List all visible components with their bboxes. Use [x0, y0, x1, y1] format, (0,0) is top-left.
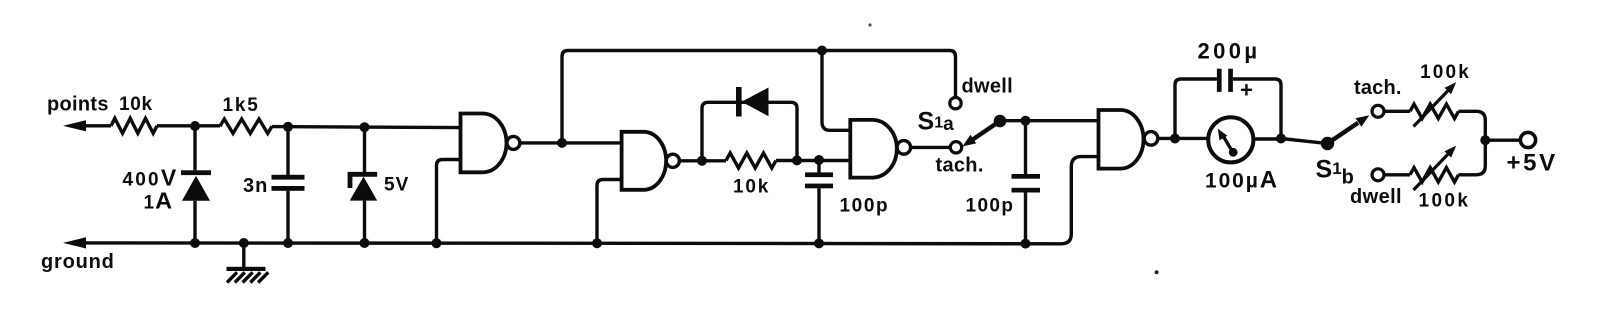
svg-text:+: + — [1240, 77, 1253, 102]
wire: 1k5 to NAND1 input — [272, 127, 461, 128]
label: ground — [41, 251, 115, 273]
switch S1a pivot — [994, 115, 1007, 128]
resistor 10k (feedback) — [726, 153, 850, 168]
junction: branches join — [1480, 135, 1490, 145]
op NAND gate N2 — [622, 132, 680, 190]
svg-text:100k: 100k — [1420, 62, 1471, 83]
label: +5V — [1507, 150, 1558, 177]
switch S1a lever — [963, 121, 1001, 146]
label: S1a — [918, 108, 955, 136]
wire: N2 lower input to ground rail — [597, 180, 622, 244]
capacitor 3n — [272, 127, 305, 243]
wire: N1 output to N2 input — [520, 141, 622, 144]
switch S1b dwell contact — [1372, 169, 1384, 181]
node C junction (zener top) — [360, 122, 370, 132]
label: 1k5 — [223, 95, 260, 116]
zener diode 5V — [350, 127, 378, 243]
label: 100p (node X) — [840, 196, 890, 217]
op NAND gate N4 — [1099, 110, 1158, 169]
label: 10k — [119, 94, 153, 115]
label: 1A — [144, 188, 173, 214]
label: 400V — [123, 165, 177, 191]
svg-text:dwell: dwell — [962, 76, 1014, 98]
svg-text:points: points — [47, 94, 109, 116]
junction: 3n ground — [283, 238, 293, 248]
ground rail with arrow — [63, 157, 1099, 249]
resistor 1k5 — [220, 119, 272, 133]
wire: N3 output to switch S1a — [911, 146, 951, 149]
diode D2 feedback loop — [702, 87, 797, 161]
label: dwell (S1a) — [962, 76, 1014, 98]
capacitor 100p (S1a node) — [1012, 121, 1041, 244]
label: 200µ — [1198, 39, 1261, 64]
junction: 100p #2 ground — [1021, 239, 1031, 249]
label: 3n — [243, 175, 268, 197]
junction: zener ground — [360, 238, 370, 248]
op NAND gate N1 — [461, 114, 520, 173]
label: 100k (dwell) — [1419, 191, 1471, 212]
svg-text:ground: ground — [41, 251, 115, 273]
junction: N2 input ground — [592, 238, 602, 248]
speck — [1155, 270, 1159, 274]
svg-text:tach.: tach. — [936, 155, 984, 177]
wire: S1a common to N4 input — [1000, 119, 1099, 122]
svg-text:dwell: dwell — [1350, 186, 1402, 208]
svg-text:10k: 10k — [119, 94, 153, 115]
variable resistor 100k (dwell) — [1384, 140, 1485, 190]
junction: N2 out / loop left — [697, 156, 707, 166]
switch S1a tach contact — [950, 142, 961, 153]
speck — [868, 23, 871, 26]
junction: N1 input ground — [432, 238, 442, 248]
junction: diode ground — [190, 238, 200, 248]
svg-text:100µA: 100µA — [1205, 167, 1277, 194]
wire: top feedback rail to dwell contact — [562, 51, 956, 143]
wire: N1 lower input to ground rail — [437, 160, 461, 244]
label: S1b — [1316, 156, 1354, 189]
capacitor 100p (node X) — [805, 160, 833, 243]
label: dwell (S1b) — [1350, 186, 1402, 208]
wire: meter right to S1b — [1253, 139, 1321, 143]
resistor 10k (points series) — [111, 118, 157, 133]
label: tach. (S1b) — [1354, 77, 1402, 99]
junction: 100p ground — [814, 238, 824, 248]
junction: meter left — [1170, 134, 1180, 144]
junction: meter right — [1276, 134, 1286, 144]
svg-text:5V: 5V — [384, 175, 409, 196]
op NAND gate N3 — [850, 120, 910, 178]
switch S1b tach contact — [1372, 105, 1384, 117]
label: + polarity — [1240, 77, 1253, 102]
svg-text:100p: 100p — [840, 196, 890, 217]
junction: ground symbol tap — [239, 238, 249, 248]
junction: N1 output feedback tap — [557, 138, 567, 148]
svg-text:10k: 10k — [733, 177, 770, 198]
label: 10k feedback — [733, 177, 770, 198]
label: 5V — [384, 175, 409, 196]
label: 100µA — [1205, 167, 1277, 194]
svg-text:3n: 3n — [243, 175, 268, 197]
svg-text:1k5: 1k5 — [223, 95, 260, 116]
switch S1b pivot — [1321, 137, 1334, 150]
junction: top rail tap — [817, 46, 827, 56]
svg-text:100k: 100k — [1419, 191, 1471, 212]
variable resistor 100k (tach) — [1384, 82, 1485, 140]
node B junction (3n) — [283, 122, 293, 132]
meter M1 100µA — [1208, 117, 1253, 162]
svg-text:200µ: 200µ — [1198, 39, 1261, 64]
svg-text:tach.: tach. — [1354, 77, 1402, 99]
wire: N4 output to meter — [1158, 137, 1207, 140]
label: 100k (tach) — [1420, 62, 1471, 83]
label: tach. (S1a) — [936, 155, 984, 177]
node A junction — [190, 121, 200, 131]
capacitor 200µ — [1175, 69, 1281, 139]
wire + terminal +5V — [1485, 132, 1535, 147]
svg-text:100p: 100p — [966, 196, 1015, 217]
junction: node X — [814, 155, 824, 165]
label: points — [47, 94, 109, 116]
diode D1 400V 1A — [181, 126, 211, 243]
wire: resistor to node A — [157, 124, 220, 127]
switch S1a dwell contact — [950, 98, 961, 109]
junction: 100p #2 top — [1021, 116, 1031, 126]
svg-text:+5V: +5V — [1507, 150, 1558, 177]
label: 100p (S1a node) — [966, 196, 1015, 217]
switch S1b lever — [1328, 115, 1370, 143]
node: points input arrow — [63, 120, 111, 131]
wire: N2 output to node X — [679, 159, 726, 162]
junction: loop right — [792, 155, 802, 165]
ground symbol — [227, 243, 269, 283]
wire: top rail drop to N3 upper input — [822, 51, 850, 131]
